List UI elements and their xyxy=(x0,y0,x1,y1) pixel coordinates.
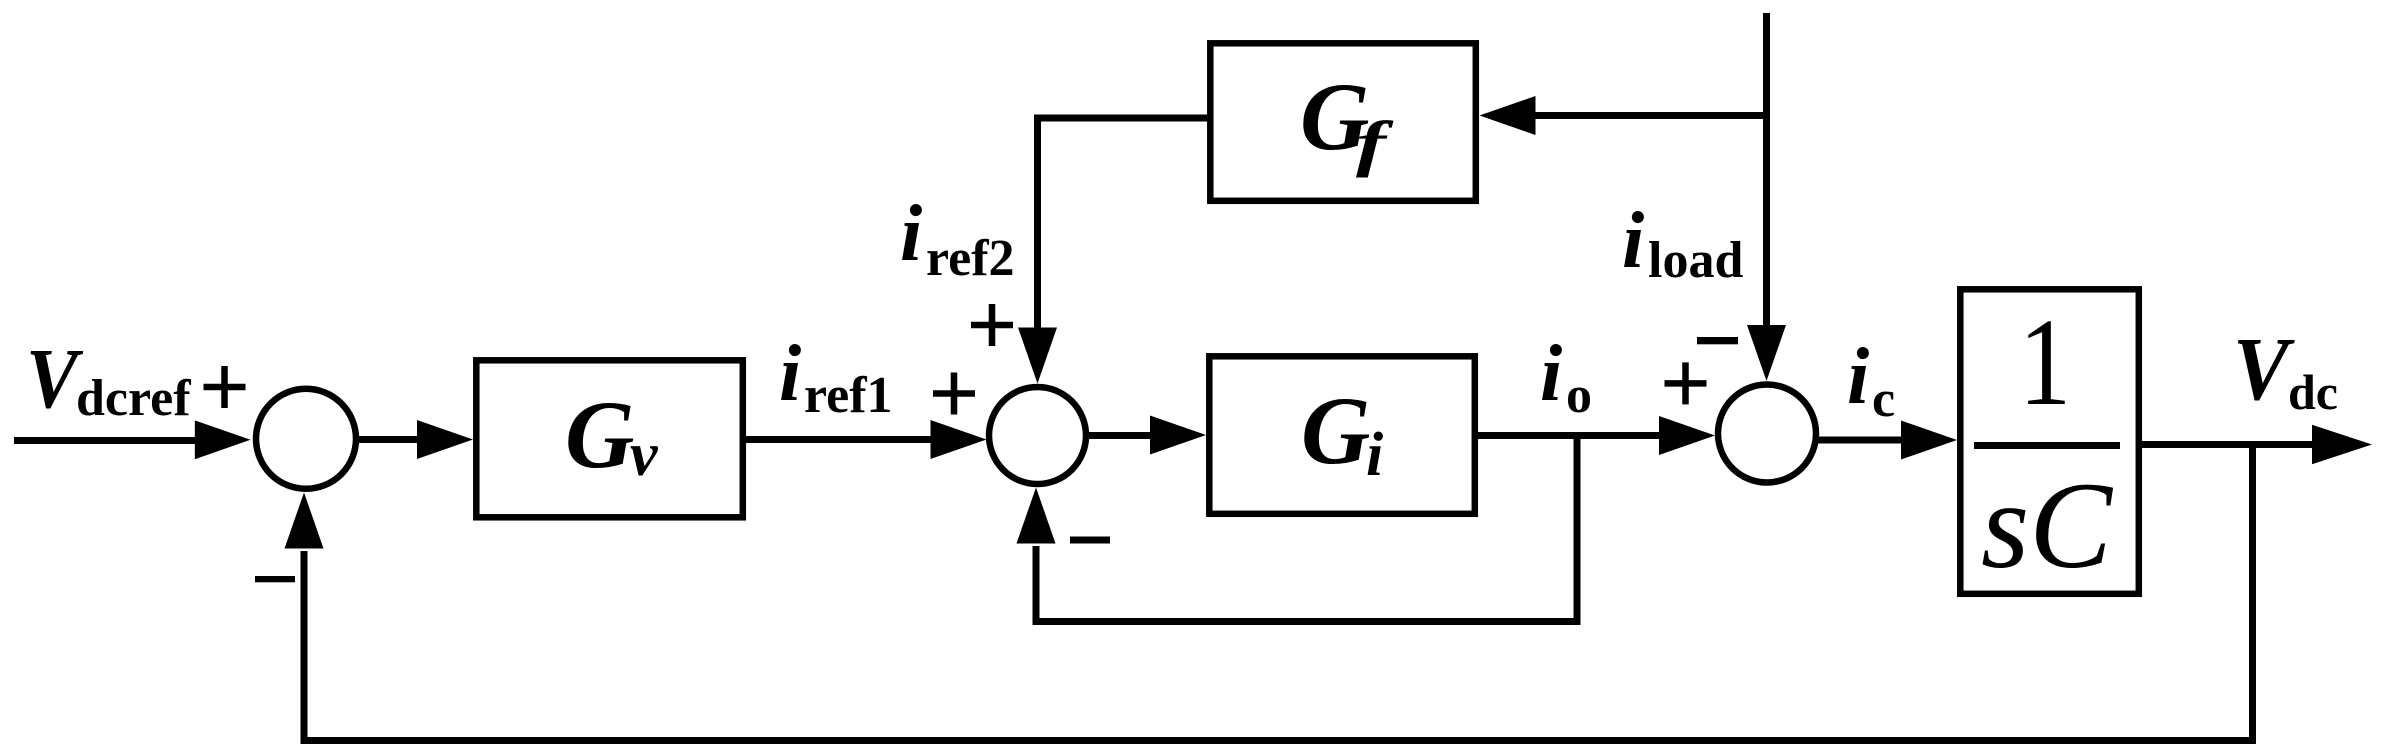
arrowhead into sum2 left xyxy=(931,420,987,459)
plus sign at sum2 top xyxy=(971,322,1013,329)
svg-text:i: i xyxy=(1540,330,1562,418)
svg-text:1: 1 xyxy=(2019,294,2071,432)
svg-text:dcref: dcref xyxy=(76,370,191,427)
svg-text:G: G xyxy=(1301,377,1370,484)
wire iload vertical xyxy=(1763,13,1770,329)
svg-text:i: i xyxy=(1622,197,1644,285)
svg-text:V: V xyxy=(2233,320,2296,419)
wire iload to Gf xyxy=(1533,112,1767,119)
svg-text:v: v xyxy=(630,421,659,489)
arrowhead output Vdc xyxy=(2312,425,2372,464)
summing junction S2 xyxy=(989,387,1086,484)
wire iref2 vertical into sum2 xyxy=(1038,118,1208,331)
arrowhead into Gi xyxy=(1150,416,1206,455)
plus sign at sum2 left xyxy=(933,390,975,397)
arrowhead into sum3 left xyxy=(1659,416,1715,455)
svg-text:c: c xyxy=(1872,371,1895,428)
svg-text:sC: sC xyxy=(1981,457,2113,594)
wire io feedback branch xyxy=(1036,436,1577,622)
arrowhead into 1/sC xyxy=(1901,421,1957,460)
arrowhead into Gf xyxy=(1480,96,1536,135)
wire 1/sC output xyxy=(2142,441,2315,448)
summing junction S3 xyxy=(1718,385,1816,483)
wire input to sum1 xyxy=(14,437,198,444)
svg-text:ref1: ref1 xyxy=(804,367,893,424)
plus sign at Vdcref xyxy=(204,384,246,391)
arrowhead into sum2 bottom xyxy=(1017,488,1056,544)
minus sign at sum1 bottom xyxy=(255,576,295,582)
svg-text:load: load xyxy=(1648,232,1743,289)
minus sign at sum2 bottom xyxy=(1070,537,1110,544)
block Gv xyxy=(476,360,743,517)
wire Vdc feedback branch xyxy=(304,445,2253,741)
block Gf xyxy=(1210,43,1476,201)
plus sign at sum3 left xyxy=(1665,380,1707,387)
arrowhead into sum1 xyxy=(195,420,251,459)
wire sum1 to Gv xyxy=(357,436,420,443)
wire Gv to sum2 xyxy=(746,436,934,443)
svg-text:i: i xyxy=(1366,421,1383,489)
svg-text:ref2: ref2 xyxy=(926,230,1015,287)
arrowhead into sum3 top xyxy=(1747,325,1786,381)
arrowhead into sum1 bottom xyxy=(285,493,324,549)
svg-text:o: o xyxy=(1566,367,1592,424)
minus sign at sum3 top xyxy=(1697,337,1738,344)
block 1/sC xyxy=(1960,289,2139,594)
svg-text:dc: dc xyxy=(2288,364,2338,420)
wire Gi to sum3 xyxy=(1478,432,1662,439)
wire sum3 to 1/sC xyxy=(1812,437,1904,444)
arrowhead into Gv xyxy=(417,420,473,459)
summing junction S1 xyxy=(256,389,356,489)
block Gi xyxy=(1209,356,1475,514)
svg-text:i: i xyxy=(779,330,801,418)
svg-text:G: G xyxy=(565,381,634,488)
arrowhead into sum2 top xyxy=(1018,328,1057,384)
fraction bar xyxy=(1974,442,2120,449)
wire sum2 to Gi xyxy=(1086,432,1152,439)
svg-text:i: i xyxy=(900,190,922,278)
svg-text:i: i xyxy=(1847,333,1869,421)
